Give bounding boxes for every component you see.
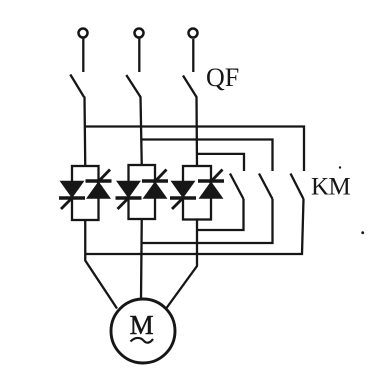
svg-text:QF: QF xyxy=(206,63,239,92)
svg-text:M: M xyxy=(130,310,154,340)
svg-text:KM: KM xyxy=(311,174,351,201)
